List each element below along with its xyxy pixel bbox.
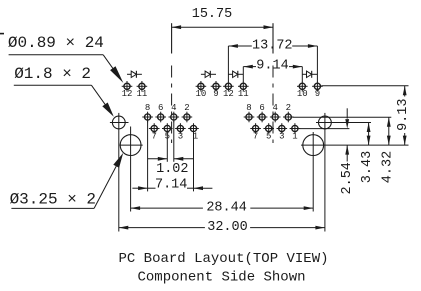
svg-text:3: 3 [178,131,183,141]
svg-text:11: 11 [136,89,147,99]
svg-text:PC Board Layout(TOP VIEW): PC Board Layout(TOP VIEW) [118,251,328,267]
pin 3 left relay [175,123,186,141]
dimension 32.00 (small hole to small hole) [119,220,325,235]
pin 2 left relay [182,103,193,122]
svg-text:1.02: 1.02 [156,162,188,177]
svg-text:4: 4 [272,103,277,113]
dimension 9.14 (pin 11 to pin 10) [243,59,302,74]
svg-text:7: 7 [253,131,258,141]
dimension 1.02 (pin5 to pin4 column) [148,157,194,177]
dimension 3.43 [360,123,375,184]
dimension 28.44 (big hole to big hole) [131,200,314,215]
svg-text:10: 10 [195,89,206,99]
pin 1 right relay [290,123,301,141]
dimension 2.54 [340,108,355,194]
svg-text:1: 1 [292,131,297,141]
pin 7 right relay [250,123,261,141]
pin 3 right relay [277,123,288,141]
extension line from pin 9 right (row y) [321,85,408,87]
pin 10 left relay (top row) [195,81,206,99]
pin 9 right relay (top row) [312,81,323,99]
svg-text:9.13: 9.13 [396,98,411,130]
svg-text:12: 12 [223,89,234,99]
svg-text:Ø0.89 × 24: Ø0.89 × 24 [8,34,104,52]
diode D3 [228,71,243,78]
pin 7 left relay [149,123,160,141]
right relay centerline [272,23,274,143]
pin 8 right relay [244,103,255,122]
svg-text:8: 8 [145,103,150,113]
svg-text:2: 2 [286,103,291,113]
svg-text:5: 5 [266,131,271,141]
diode D2 [201,71,216,78]
pin 6 left relay [155,103,166,122]
caption line 1 [118,251,328,267]
pin 1 left relay [188,123,199,141]
svg-text:4.32: 4.32 [380,151,395,183]
pin 4 left relay [169,103,180,122]
svg-text:15.75: 15.75 [192,7,233,22]
pin 11 left relay (top row) [136,81,147,99]
diode D1 [127,71,142,78]
pin 11 right relay (top row) [238,81,249,99]
extension line pin 1 left [193,133,195,192]
mounting hole big right (diam 3.25) [303,132,324,212]
extension line pin 5 left [166,133,168,162]
svg-text:2.54: 2.54 [340,162,355,194]
svg-text:6: 6 [158,103,163,113]
svg-text:8: 8 [246,103,251,113]
extension line from pin 2 right [293,116,392,118]
mounting hole small right (diam 1.8) [319,113,332,232]
svg-text:6: 6 [259,103,264,113]
svg-text:2: 2 [184,103,189,113]
pin 2 right relay [283,103,294,122]
pin 12 right relay (top row) [223,81,234,99]
extension line pin 8 left [147,121,149,191]
caption line 2 [137,270,305,286]
pin 4 right relay [270,103,281,122]
mounting hole small left (diam 1.8) [110,113,129,232]
extension line pin 9 right [316,46,318,81]
dimension 7.14 (pin8 to pin1 column) [132,177,212,192]
stray mark at left edge [0,33,4,35]
svg-text:7: 7 [151,131,156,141]
extension line from pin 1 right [299,128,349,130]
dimension 9.13 [396,86,411,145]
extension line pin 12 right [227,46,229,81]
pin 12 left relay (top row) [122,81,133,99]
svg-text:3.43: 3.43 [360,151,375,183]
svg-text:Ø1.8 × 2: Ø1.8 × 2 [14,65,91,83]
extension line pin 10 right [301,67,303,82]
svg-text:13.72: 13.72 [252,39,293,54]
svg-text:32.00: 32.00 [207,220,248,235]
diode D4 [302,71,317,78]
svg-text:9: 9 [315,89,320,99]
pin 5 right relay [263,123,274,141]
pin 6 right relay [257,103,268,122]
svg-text:28.44: 28.44 [206,200,247,215]
svg-text:Ø3.25 × 2: Ø3.25 × 2 [10,190,96,208]
callout diam 3.25 x 2 (big holes) [10,153,124,209]
dimension 15.75 (relay center to center) [172,7,273,29]
svg-text:Component Side Shown: Component Side Shown [137,270,305,286]
svg-text:3: 3 [279,131,284,141]
svg-text:4: 4 [171,103,176,113]
svg-text:9: 9 [213,89,218,99]
svg-text:11: 11 [238,89,249,99]
callout diam 1.8 x 2 (small holes) [14,65,114,117]
pin 5 left relay [162,123,173,141]
extension line pin 11 right [242,67,244,82]
mounting hole big left (diam 3.25) [120,127,143,212]
baseline from big hole center [301,144,409,146]
extension line from small hole right [316,122,371,124]
dimension 13.72 (pin 12 to pin 9) [228,39,317,54]
callout diam 0.89 x 24 (pin holes) [8,34,123,83]
svg-text:10: 10 [297,89,308,99]
left relay centerline [171,23,173,143]
dimension 4.32 [380,117,395,183]
svg-text:9.14: 9.14 [256,59,288,74]
pin 9 left relay (top row) [211,81,222,99]
pin 8 left relay [142,103,153,122]
pin 10 right relay (top row) [297,81,308,99]
extension line pin 4 left [173,121,175,162]
svg-text:12: 12 [122,89,133,99]
svg-text:7.14: 7.14 [155,177,187,192]
